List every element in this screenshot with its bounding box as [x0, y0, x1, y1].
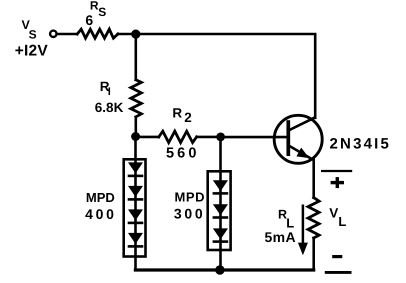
wire R1 to node B — [135, 117, 138, 137]
label MPD 300 — [174, 189, 205, 221]
diode array MPD300 — [208, 171, 231, 250]
node C junction dot — [216, 133, 225, 142]
plus terminal mark — [321, 171, 352, 188]
wire node C down through MPD300 to bottom rail — [219, 137, 222, 270]
wire emitter vertical upper — [312, 160, 315, 198]
svg-text:MPD: MPD — [86, 190, 115, 205]
svg-text:V: V — [329, 206, 338, 221]
wire top rail and collector drop — [136, 34, 315, 118]
label R1 — [100, 79, 111, 98]
svg-text:2N34I5: 2N34I5 — [330, 135, 392, 152]
label VL — [329, 206, 346, 230]
svg-text:MPD: MPD — [175, 189, 206, 204]
wire node B to R2 — [136, 136, 159, 139]
label RS — [90, 0, 106, 19]
wire node C to transistor base — [221, 136, 289, 139]
label R2 — [172, 106, 191, 126]
node A junction dot — [131, 29, 140, 38]
svg-text:300: 300 — [174, 205, 205, 221]
svg-text:6: 6 — [85, 12, 93, 28]
wire VS to RS — [58, 33, 77, 36]
bottom rail junction dot — [215, 265, 224, 274]
svg-text:S: S — [29, 28, 37, 42]
svg-text:I: I — [108, 86, 111, 98]
wire node B down through MPD400 to bottom rail — [134, 137, 137, 270]
resistor RL — [308, 198, 319, 238]
wire R2 to node C — [197, 136, 221, 139]
minus terminal mark — [325, 257, 352, 273]
wire RL to bottom rail — [312, 238, 315, 270]
svg-text:560: 560 — [166, 146, 200, 162]
node B junction dot — [131, 132, 140, 141]
svg-text:5mA: 5mA — [265, 229, 297, 245]
resistor R2 — [159, 131, 197, 142]
svg-text:6.8K: 6.8K — [95, 100, 124, 115]
resistor RS — [77, 29, 118, 38]
resistor R1 — [131, 80, 142, 117]
transistor Q1 2N3415 — [274, 115, 322, 163]
label RL — [278, 207, 294, 230]
wire RS to node A — [118, 33, 136, 36]
svg-text:L: L — [338, 214, 346, 229]
terminal VS — [50, 31, 56, 37]
svg-text:400: 400 — [85, 206, 116, 222]
svg-text:S: S — [98, 5, 106, 19]
label VS — [22, 18, 37, 42]
svg-text:2: 2 — [184, 110, 192, 125]
wire node A down to R1 — [135, 34, 138, 80]
svg-text:+I2V: +I2V — [15, 42, 49, 59]
load arrow 5mA — [298, 205, 308, 256]
wire bottom rail — [135, 268, 313, 271]
svg-text:R: R — [172, 106, 182, 121]
diode array MPD400 — [124, 159, 146, 256]
label MPD 400 — [85, 190, 116, 222]
